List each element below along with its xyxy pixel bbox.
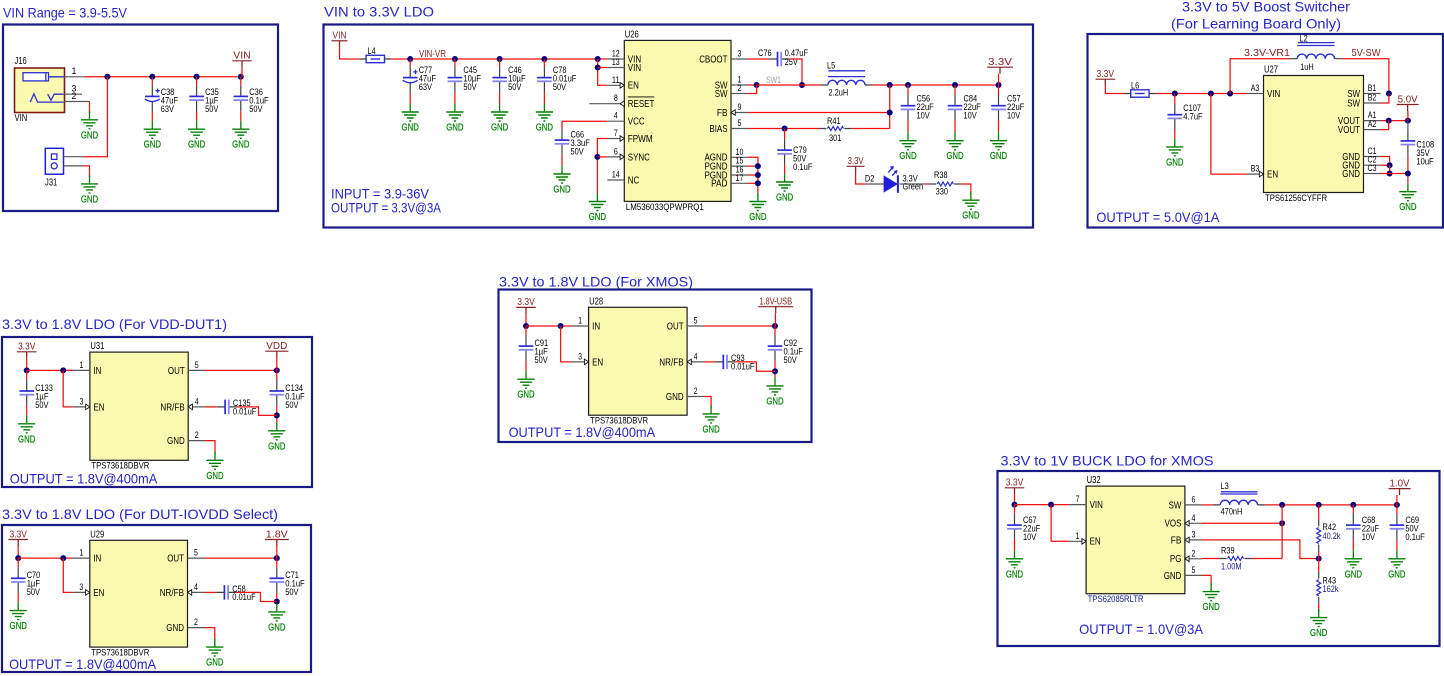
wire CBOOT	[748, 58, 769, 60]
junction 3.3V rail	[905, 82, 911, 88]
wire C68 top	[1352, 505, 1354, 514]
svg-text:6: 6	[1191, 494, 1195, 504]
ground C45	[446, 104, 463, 134]
svg-text:SW: SW	[715, 89, 728, 100]
wire C67 top	[1014, 505, 1016, 514]
capacitor C45	[448, 65, 481, 93]
pin A3 VIN of U27	[1247, 83, 1281, 100]
svg-text:VIN: VIN	[15, 113, 28, 124]
wire C57 top	[998, 85, 1000, 95]
wire PGND15	[748, 165, 758, 167]
svg-text:4: 4	[694, 351, 698, 361]
pin 2 of J16	[65, 91, 90, 102]
svg-text:OUT: OUT	[667, 321, 684, 332]
wire PAD17	[748, 182, 758, 184]
wire SW to L3	[1202, 504, 1213, 506]
pin 6 SYNC of U26	[607, 146, 650, 163]
svg-text:50V: 50V	[571, 147, 585, 158]
junction C71 gnd node	[274, 599, 280, 605]
connector J16	[15, 56, 65, 124]
pin 1 of J31	[64, 156, 84, 158]
pin 1 of J16	[65, 66, 84, 77]
wire OUT	[704, 325, 775, 327]
svg-text:SYNC: SYNC	[628, 152, 650, 163]
svg-text:EN: EN	[1267, 170, 1278, 181]
svg-text:VIN: VIN	[1267, 89, 1280, 100]
junction VIN	[1048, 502, 1054, 508]
resistor R42	[1317, 520, 1341, 552]
pin 7 VIN of U32	[1069, 494, 1103, 511]
junction VIN-VR	[541, 56, 547, 62]
svg-text:J31: J31	[45, 178, 57, 189]
svg-text:5: 5	[738, 118, 742, 128]
pin 2 SW of U26	[715, 83, 748, 100]
wire VCC	[562, 121, 607, 129]
pin 15 PGND of U26	[705, 156, 749, 173]
junction VOUT	[1386, 118, 1392, 124]
pin 2 of J31	[64, 165, 84, 167]
wire C77 bottom	[409, 93, 411, 103]
pin 1 IN of U28	[572, 316, 601, 333]
junction 3.3V rail	[952, 82, 958, 88]
svg-text:2: 2	[738, 83, 742, 93]
ground C134	[268, 422, 285, 452]
svg-text:0.01uF: 0.01uF	[232, 592, 256, 603]
svg-text:U31: U31	[90, 341, 104, 352]
ground U29 GND	[206, 639, 223, 669]
wire 1.0V stub	[1396, 495, 1398, 505]
svg-text:3.3V: 3.3V	[517, 297, 535, 308]
wire GND bus to gnd	[1390, 174, 1408, 184]
pin 4 VCC of U26	[607, 111, 644, 128]
junction C92 gnd node	[772, 368, 778, 374]
capacitor C92	[768, 335, 803, 366]
resistor R43	[1317, 572, 1339, 604]
wire 1.8V stub	[276, 546, 278, 558]
wire C67 bottom	[1014, 540, 1016, 550]
svg-text:EN: EN	[592, 357, 603, 368]
svg-text:50V: 50V	[249, 104, 263, 115]
wire C107 bottom	[1174, 130, 1176, 139]
svg-text:301: 301	[829, 133, 841, 144]
wire GND pin	[205, 628, 215, 642]
svg-text:TPS61256CYFFR: TPS61256CYFFR	[1265, 193, 1327, 203]
ground C92	[766, 377, 783, 407]
svg-text:1: 1	[72, 66, 77, 76]
pin B2 SW of U27	[1347, 93, 1380, 110]
wire NR/FB	[205, 591, 217, 593]
capacitor C68	[1346, 514, 1379, 543]
junction IN	[60, 555, 66, 561]
junction 1V rail	[1350, 502, 1356, 508]
junction VOUT	[1405, 118, 1411, 124]
pin 5 GND of U32	[1164, 565, 1202, 582]
pin 4 NR/FB of U29	[160, 582, 205, 599]
wire C45 bottom	[454, 92, 456, 103]
svg-text:SW: SW	[1169, 500, 1182, 511]
wire NR/FB	[704, 361, 715, 363]
capacitor C57	[991, 94, 1024, 122]
svg-text:TPS62085RLTR: TPS62085RLTR	[1088, 594, 1144, 604]
ground R38	[962, 192, 979, 222]
svg-text:50V: 50V	[553, 82, 567, 93]
wire C57 bottom	[998, 121, 1000, 133]
ground R43	[1310, 609, 1327, 639]
wire VOUT A1	[1381, 120, 1408, 122]
capacitor C67	[1007, 514, 1040, 543]
svg-text:R38: R38	[934, 170, 948, 181]
junction PGND	[755, 172, 761, 178]
ground C35	[188, 121, 205, 151]
wire C38 top	[151, 77, 153, 85]
wire C68 bottom	[1352, 540, 1354, 550]
capacitor C76	[758, 48, 808, 68]
border Boost Switcher block	[1088, 34, 1444, 228]
pin B3 EN of U27	[1247, 164, 1279, 181]
svg-text:GND: GND	[1164, 571, 1182, 582]
power port 3.3V	[17, 342, 37, 359]
pin 5 OUT of U28	[667, 316, 704, 333]
wire C70 bottom	[17, 593, 19, 602]
svg-text:VIN: VIN	[1090, 500, 1103, 511]
capacitor C78	[537, 65, 576, 93]
power port VDD	[265, 341, 288, 358]
svg-text:IN: IN	[93, 366, 101, 377]
svg-text:OUTPUT = 1.8V@400mA: OUTPUT = 1.8V@400mA	[10, 472, 158, 487]
junction GND bus	[1405, 171, 1411, 177]
wire C70 top	[17, 558, 19, 567]
wire C93 out	[735, 362, 775, 371]
svg-text:9: 9	[738, 102, 742, 112]
ground C133	[18, 415, 35, 445]
pin 3 EN of U31	[73, 396, 105, 413]
wire OUT	[205, 557, 277, 559]
capacitor C46	[492, 65, 525, 93]
svg-text:3.3V: 3.3V	[848, 156, 864, 167]
pin 2 GND of U29	[166, 617, 204, 634]
svg-text:C3: C3	[1368, 163, 1377, 173]
svg-text:50V: 50V	[535, 355, 549, 366]
resistor R41	[819, 116, 851, 144]
pin C3 GND of U27	[1342, 163, 1380, 180]
wire J16 pin2 to GND	[89, 102, 91, 114]
junction 1.8V-USB	[772, 323, 778, 329]
power port 3.3V	[1005, 478, 1025, 495]
wire C38 bottom	[151, 112, 153, 121]
ground C57	[990, 132, 1007, 162]
junction IN	[15, 555, 21, 561]
wire LED 3.3V	[856, 173, 866, 184]
svg-text:SW1: SW1	[766, 75, 781, 85]
ground FPWM/SYNC	[589, 193, 606, 223]
pin 4 NR/FB of U31	[160, 396, 205, 413]
junction VIN-VR	[407, 56, 413, 62]
pin 1 EN of U32	[1069, 531, 1101, 548]
junction IN	[60, 367, 66, 373]
svg-text:10V: 10V	[1007, 111, 1021, 122]
junction C134 gnd node	[274, 412, 280, 418]
wire OUT	[205, 369, 277, 371]
junction FB	[887, 110, 893, 116]
ground U26 PGND	[749, 193, 766, 223]
wire C36 bottom	[240, 111, 242, 121]
svg-text:162k: 162k	[1323, 584, 1339, 595]
pin 11 EN of U26	[607, 75, 639, 92]
svg-text:2.2uH: 2.2uH	[828, 88, 848, 99]
pin 3 EN of U28	[572, 351, 604, 368]
wire 1.8V-USB stub	[774, 313, 776, 326]
capacitor C70	[11, 567, 41, 598]
svg-text:INPUT = 3.9-36V: INPUT = 3.9-36V	[331, 187, 429, 202]
svg-text:L4: L4	[368, 46, 376, 57]
power port 5.0V	[1397, 94, 1419, 111]
junction 1V rail	[1394, 502, 1400, 508]
svg-text:U28: U28	[589, 296, 603, 307]
wire C91 top	[525, 326, 527, 335]
ic U29	[90, 529, 188, 657]
wire C133 bottom	[26, 406, 28, 416]
junction VIN node	[1227, 91, 1233, 97]
svg-text:3.3V to 1.8V LDO (For DUT-IOVD: 3.3V to 1.8V LDO (For DUT-IOVDD Select)	[2, 507, 278, 522]
no-connect stub pin 8	[589, 103, 607, 105]
capacitor C133	[19, 380, 53, 411]
power port 1.8V-USB	[758, 297, 793, 314]
pin C1 GND of U27	[1342, 146, 1380, 163]
svg-text:FB: FB	[717, 108, 728, 119]
svg-text:(For Learning Board Only): (For Learning Board Only)	[1171, 17, 1341, 32]
ground C71	[268, 603, 285, 633]
capacitor C69	[1390, 514, 1425, 543]
svg-text:EN: EN	[93, 588, 104, 599]
wire SYNC branch	[597, 156, 607, 158]
pin 2 GND of U31	[167, 430, 205, 447]
svg-text:2: 2	[72, 91, 77, 101]
capacitor C56	[901, 94, 934, 122]
svg-text:VIN: VIN	[233, 51, 251, 62]
junction VDD	[274, 367, 280, 373]
power port 3.3V	[847, 156, 865, 173]
wire SW to L5	[757, 84, 821, 86]
capacitor C134	[270, 380, 305, 411]
wire C78 bottom	[543, 92, 545, 103]
wire R41 to FB riser	[851, 128, 889, 130]
wire GND bus v	[1389, 165, 1391, 173]
svg-text:TPS73618DBVR: TPS73618DBVR	[91, 648, 149, 658]
svg-text:VDD: VDD	[266, 341, 287, 352]
svg-text:PAD: PAD	[711, 179, 727, 190]
svg-text:OUTPUT = 1.8V@400mA: OUTPUT = 1.8V@400mA	[509, 425, 656, 440]
svg-text:1.8V-USB: 1.8V-USB	[759, 297, 792, 308]
wire C79 top	[784, 129, 786, 139]
svg-text:L5: L5	[827, 61, 835, 72]
wire FB riser	[889, 85, 891, 129]
svg-text:GND: GND	[167, 436, 185, 447]
svg-text:EN: EN	[628, 81, 639, 92]
svg-text:OUTPUT = 5.0V@1A: OUTPUT = 5.0V@1A	[1096, 210, 1220, 225]
wire C135 out	[237, 407, 277, 416]
inductor L3	[1213, 481, 1265, 518]
wire C66 bottom	[561, 155, 563, 166]
svg-text:50V: 50V	[463, 82, 477, 93]
svg-text:VOS: VOS	[1165, 519, 1182, 530]
svg-text:5: 5	[194, 548, 198, 558]
wire 3.3V output rail	[873, 84, 999, 86]
wire GND C3	[1381, 173, 1390, 175]
wire R42 top	[1318, 505, 1320, 520]
capacitor C66	[555, 129, 590, 158]
wire GND pin	[704, 397, 711, 408]
svg-text:4: 4	[1191, 513, 1195, 523]
svg-text:0.01uF: 0.01uF	[233, 406, 257, 417]
svg-text:GND: GND	[166, 623, 184, 634]
svg-text:VIN-VR: VIN-VR	[419, 49, 446, 60]
wire C36 top	[240, 77, 242, 85]
resistor R39	[1220, 546, 1252, 573]
wire C35 bottom	[196, 111, 198, 121]
inductor L6	[1124, 81, 1156, 98]
wire R42 bottom	[1318, 552, 1320, 559]
pin 14 NC of U26	[607, 170, 639, 187]
wire C107 top	[1174, 94, 1176, 104]
svg-text:3.3V to 1.8V LDO (For VDD-DUT1: 3.3V to 1.8V LDO (For VDD-DUT1)	[2, 317, 227, 332]
svg-text:NR/FB: NR/FB	[160, 402, 184, 413]
svg-text:10V: 10V	[1362, 532, 1376, 543]
svg-text:3.3V: 3.3V	[988, 57, 1012, 68]
svg-text:R39: R39	[1221, 546, 1235, 557]
capacitor C135	[217, 398, 257, 417]
wire SW pin1	[748, 84, 757, 86]
svg-text:1.8V: 1.8V	[266, 529, 288, 540]
svg-text:0.01uF: 0.01uF	[731, 361, 755, 372]
junction 1.8V	[274, 555, 280, 561]
wire C92 top	[774, 326, 776, 335]
pin 1 IN of U31	[73, 360, 102, 377]
wire C84 bottom	[954, 121, 956, 133]
pin 5 OUT of U31	[168, 360, 205, 377]
wire FB	[1202, 540, 1319, 559]
power port 3.3V	[987, 57, 1013, 74]
wire R38 to GND	[961, 184, 971, 194]
svg-text:BIAS: BIAS	[709, 124, 727, 135]
wire C133 top	[26, 370, 28, 379]
svg-text:C76: C76	[758, 48, 772, 59]
wire C71 bottom	[276, 593, 278, 603]
junction BIAS	[782, 126, 788, 132]
wire FB	[748, 112, 890, 114]
ground J16 pin2	[81, 111, 98, 141]
diode D2	[865, 166, 923, 193]
ic U32	[1086, 475, 1185, 604]
svg-text:VIN: VIN	[628, 63, 641, 74]
svg-text:D2: D2	[865, 174, 875, 185]
svg-text:NR/FB: NR/FB	[659, 357, 683, 368]
wire VIN input rail	[84, 76, 241, 78]
inductor L2	[1290, 34, 1342, 73]
ic U31	[90, 341, 188, 471]
inductor L5	[821, 61, 873, 99]
pin 12 VIN of U26	[607, 49, 641, 66]
svg-text:10V: 10V	[964, 111, 978, 122]
pin B1 SW of U27	[1347, 83, 1380, 100]
capacitor C71	[270, 567, 305, 598]
svg-text:OUTPUT = 1.8V@400mA: OUTPUT = 1.8V@400mA	[9, 657, 157, 672]
junction 1V rail	[1279, 502, 1285, 508]
svg-text:VIN Range = 3.9-5.5V: VIN Range = 3.9-5.5V	[3, 6, 127, 21]
junction VIN	[1012, 502, 1018, 508]
svg-text:10V: 10V	[917, 111, 931, 122]
ground C66	[553, 166, 570, 196]
ground C46	[491, 104, 508, 134]
wire PGND16	[748, 174, 758, 176]
svg-text:13: 13	[612, 57, 620, 67]
svg-text:1: 1	[578, 316, 582, 326]
wire EN branch	[1211, 94, 1247, 175]
junction 1V rail	[1316, 502, 1322, 508]
svg-text:63V: 63V	[161, 104, 175, 115]
svg-text:1: 1	[79, 360, 83, 370]
inductor L4	[359, 46, 391, 63]
connector J31	[45, 148, 64, 188]
wire VOS riser	[1281, 505, 1283, 559]
pin 17 PAD of U26	[711, 173, 748, 190]
svg-text:VOUT: VOUT	[1338, 125, 1360, 136]
junction VIN rail	[104, 74, 110, 80]
svg-text:17: 17	[736, 173, 744, 183]
wire SW pin2	[748, 85, 757, 94]
pin 2 PG of U32	[1170, 548, 1202, 565]
svg-text:GND: GND	[1342, 169, 1360, 180]
ground C77	[402, 104, 419, 134]
capacitor C35	[189, 85, 219, 115]
svg-text:1.0V: 1.0V	[1390, 478, 1410, 489]
svg-text:GND: GND	[666, 392, 684, 403]
pin A1 VOUT of U27	[1338, 110, 1381, 127]
wire pin13 branch	[598, 67, 608, 69]
wire CBOOT to SW	[789, 59, 802, 85]
svg-text:4.7uF: 4.7uF	[1183, 112, 1203, 123]
svg-text:U26: U26	[625, 29, 639, 40]
svg-text:IN: IN	[592, 321, 600, 332]
ground U27 GND	[1399, 183, 1416, 213]
wire VDD stub	[276, 358, 278, 371]
wire VOS	[1202, 522, 1282, 524]
wire C79 bottom	[784, 165, 786, 174]
ground C91	[517, 371, 534, 401]
svg-text:7: 7	[614, 128, 618, 138]
pin 9 FB of U26	[717, 102, 748, 119]
ground C38	[144, 121, 161, 151]
svg-text:1uH: 1uH	[1300, 62, 1314, 73]
svg-text:B2: B2	[1368, 93, 1377, 103]
capacitor C79	[777, 139, 812, 173]
pin A2 VOUT of U27	[1338, 119, 1381, 136]
svg-text:1.00M: 1.00M	[1221, 562, 1242, 573]
svg-text:RESET: RESET	[628, 99, 655, 110]
ic U28	[589, 296, 688, 425]
svg-text:1: 1	[79, 548, 83, 558]
wire J31 pin2 to GND	[83, 166, 90, 178]
power port 3.3V	[1096, 69, 1116, 86]
power port VIN	[232, 51, 252, 68]
wire L6 to VIN	[1156, 93, 1247, 95]
wire AGND bus	[748, 157, 758, 195]
wire SW B2	[1381, 94, 1389, 104]
svg-text:Green: Green	[903, 182, 924, 193]
pin 5 OUT of U29	[167, 548, 204, 565]
ground C69	[1388, 550, 1405, 580]
border XMOS LDO block	[499, 290, 812, 443]
capacitor C77	[403, 65, 436, 93]
